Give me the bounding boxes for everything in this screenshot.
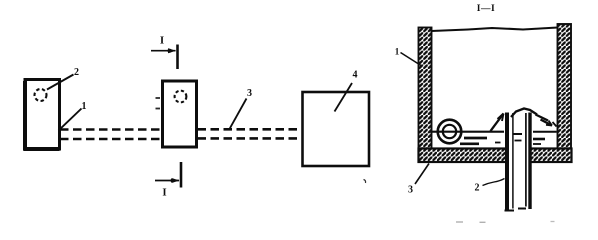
svg-text:1: 1 [395, 47, 400, 57]
svg-text:I: I [162, 187, 166, 199]
svg-text:3: 3 [408, 185, 413, 196]
svg-text:2: 2 [475, 183, 480, 194]
svg-text:I—I: I—I [477, 4, 495, 14]
svg-text:1: 1 [82, 101, 87, 112]
svg-text:2: 2 [74, 67, 79, 78]
svg-text:I: I [160, 35, 164, 47]
svg-text:4: 4 [353, 70, 358, 81]
svg-text:3: 3 [247, 88, 252, 99]
